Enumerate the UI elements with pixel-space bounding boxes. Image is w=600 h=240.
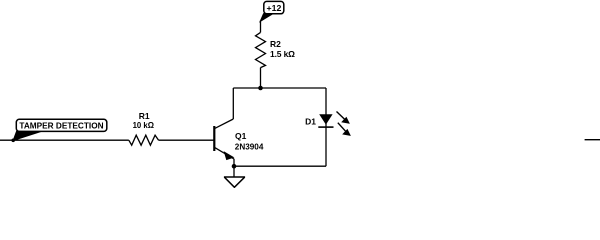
collector diagonal [215, 119, 234, 128]
wire collector vertical [232, 88, 234, 119]
svg-text:TAMPER DETECTION: TAMPER DETECTION [19, 121, 103, 131]
wire R2 bottom [260, 68, 262, 88]
svg-text:2N3904: 2N3904 [235, 141, 264, 151]
wire emitter vertical [233, 159, 235, 166]
wire base left segment [0, 139, 129, 141]
cathode bar [318, 126, 333, 128]
net flag +12 [260, 1, 284, 21]
wire bottom horizontal [234, 165, 326, 167]
light arrow 1 [337, 112, 350, 124]
emitter diagonal [215, 148, 234, 159]
svg-text:1.5 kΩ: 1.5 kΩ [270, 49, 295, 59]
ground [224, 166, 245, 187]
light arrow 2 [338, 123, 350, 136]
svg-text:10 kΩ: 10 kΩ [133, 120, 155, 130]
resistor R2 [256, 32, 296, 67]
anode triangle [319, 114, 332, 124]
wire D1 anode vertical [325, 88, 327, 127]
junction node at emitter/ground [232, 164, 237, 169]
wire stub right edge [585, 139, 600, 141]
wire base right segment [159, 139, 215, 141]
wire flag to R2 [260, 21, 262, 33]
wire top horizontal [233, 87, 326, 89]
net flag TAMPER DETECTION [11, 119, 106, 142]
svg-text:R2: R2 [270, 39, 281, 49]
svg-text:+12: +12 [267, 4, 282, 13]
resistor R1 [129, 111, 159, 145]
base bar [213, 126, 215, 151]
wire D1 cathode vertical [325, 127, 327, 166]
svg-text:Q1: Q1 [235, 131, 247, 141]
emitter arrowhead [224, 152, 233, 160]
LED D1 [305, 112, 350, 136]
transistor Q1 [214, 119, 263, 160]
svg-text:D1: D1 [305, 117, 316, 127]
junction node at R2/collector/D1 [258, 86, 263, 91]
